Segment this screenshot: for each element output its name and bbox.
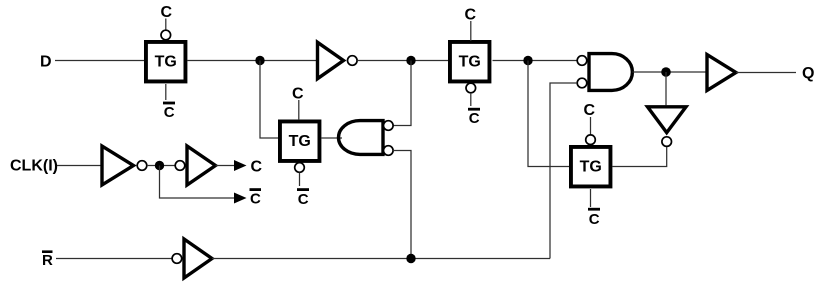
reset buffer U8 xyxy=(184,239,212,278)
feedback gate U5 (mirrored AND, inverted inputs) xyxy=(339,121,384,155)
bubble on U2 top input xyxy=(577,56,587,66)
bubble on U7 input xyxy=(175,161,185,171)
wire TG2 bubble to C-bar xyxy=(470,93,472,106)
wire U6 to U7 xyxy=(147,165,175,167)
wire U2 output to buffer xyxy=(632,71,707,73)
wire C to TG1 bubble xyxy=(165,19,167,31)
svg-text:TG: TG xyxy=(459,53,481,70)
junction node dot reset xyxy=(406,254,415,263)
junction node dot Q xyxy=(661,67,671,77)
transmission gate TG2 xyxy=(450,42,490,81)
wire U5 bottom bubble down to reset line xyxy=(393,151,411,259)
wire to Q xyxy=(736,72,796,74)
wire R to buffer xyxy=(56,258,173,260)
svg-text:D: D xyxy=(40,54,52,71)
svg-text:C: C xyxy=(584,102,596,119)
wire C to TG2 top xyxy=(470,21,472,41)
bubble on reset buffer input xyxy=(172,254,182,264)
arrowhead to C xyxy=(234,160,247,171)
wire C to TG4 bubble xyxy=(590,117,592,135)
svg-text:R: R xyxy=(42,252,53,269)
wire clock node down to C-bar arrow xyxy=(160,166,235,199)
wire TG1 to inverter xyxy=(188,60,317,62)
wire TG4 bottom to C-bar xyxy=(590,189,592,207)
wire TG3 bubble to C-bar xyxy=(299,173,301,187)
wire C to TG3 top xyxy=(298,100,300,120)
bubble on U5 bottom input xyxy=(384,146,394,156)
svg-text:C: C xyxy=(161,4,173,21)
clock C-bar label xyxy=(250,188,262,207)
bubble on U1 output xyxy=(348,56,358,66)
arrowhead to C-bar xyxy=(234,193,247,204)
wire U1 to TG2 xyxy=(357,60,449,62)
svg-text:Q: Q xyxy=(802,65,814,82)
control C-bar label below TG3 xyxy=(297,188,309,208)
output buffer U3 xyxy=(707,55,736,91)
bubble on U6 output xyxy=(137,161,147,171)
wire riser to U2 bottom input xyxy=(550,83,577,259)
AND gate U2 with inverted inputs xyxy=(589,54,632,91)
svg-text:C: C xyxy=(465,7,477,24)
svg-text:C: C xyxy=(298,191,309,208)
junction node dot B xyxy=(406,56,415,65)
wire TG1 bottom to C-bar xyxy=(165,84,167,100)
svg-text:C: C xyxy=(589,211,600,228)
junction node dot C xyxy=(523,56,532,65)
control C-bar label below TG4 xyxy=(588,208,600,228)
svg-text:CLK(I): CLK(I) xyxy=(10,158,58,175)
wire TG2 to AND gate xyxy=(493,60,578,62)
svg-text:C: C xyxy=(250,191,261,208)
clock inverter U6 xyxy=(102,146,134,185)
wire TG3 to feedback gate xyxy=(322,137,343,139)
svg-text:C: C xyxy=(251,159,263,176)
transmission gate TG3 xyxy=(280,121,320,161)
wire U4 to TG4 xyxy=(612,147,666,167)
wire U7 to C arrow xyxy=(216,165,235,167)
wire D to TG1 xyxy=(55,60,145,62)
bubble on TG3 bottom xyxy=(295,163,305,173)
bubble on U5 top input xyxy=(384,121,394,131)
control C-bar label below TG1 xyxy=(163,102,175,121)
wire node B down to feedback gate top bubble xyxy=(393,61,411,126)
bubble on U2 bottom input xyxy=(577,78,587,88)
wire reset line to x550 riser xyxy=(212,258,550,260)
wire node Q down to feedback inverter xyxy=(665,72,667,105)
wire node A down to TG3 xyxy=(260,61,278,139)
transmission gate TG1 xyxy=(146,42,186,81)
bubble on TG4 top xyxy=(586,135,596,145)
junction node dot clock xyxy=(155,161,164,170)
clock buffer U7 xyxy=(187,146,216,185)
svg-text:TG: TG xyxy=(155,53,177,70)
transmission gate TG4 xyxy=(571,147,611,187)
feedback inverter U4 (points down) xyxy=(648,107,687,133)
reset input label R-bar xyxy=(42,250,53,268)
bubble on U4 output xyxy=(662,137,672,147)
svg-text:C: C xyxy=(469,110,480,127)
bubble on TG1 top xyxy=(161,30,171,40)
svg-text:TG: TG xyxy=(289,133,311,150)
wire CLK to inverter xyxy=(57,165,102,167)
svg-text:C: C xyxy=(292,86,304,103)
control C-bar label below TG2 xyxy=(468,108,480,127)
svg-text:C: C xyxy=(164,104,175,121)
inverter U1 (master) xyxy=(318,42,344,78)
wire node C down to TG4 xyxy=(528,61,569,167)
junction node dot A xyxy=(255,56,264,65)
bubble on TG2 bottom xyxy=(466,83,476,93)
svg-text:TG: TG xyxy=(580,158,602,175)
